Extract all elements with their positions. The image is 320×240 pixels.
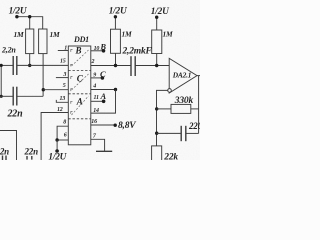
svg-text:B: B	[75, 46, 82, 56]
svg-text:10: 10	[94, 46, 100, 52]
wire: top-left 1/2U rail	[17, 17, 43, 29]
junction: feedback 220 cap	[155, 132, 158, 135]
svg-text:2,2mkF: 2,2mkF	[122, 47, 153, 57]
wire: down to 1/2U terminal	[56, 140, 58, 151]
wire: 220 cap right lead	[186, 132, 199, 134]
wire: right 1M bottom lead	[156, 54, 158, 66]
svg-text:B: B	[99, 41, 106, 51]
capacitor C 2,2n (row1)	[12, 56, 14, 75]
wire: op-amp output	[197, 75, 200, 77]
IC section separator C/A	[68, 93, 91, 95]
IC input hooks section B	[71, 50, 73, 52]
op-amp DA2.1 triangle	[169, 58, 197, 93]
resistor R 1M (middle)	[111, 29, 121, 53]
wire: pin4 to junction	[91, 89, 116, 91]
wire: 330k left lead	[157, 108, 172, 110]
capacitor C (bottom-left, cut)	[2, 156, 4, 161]
wire: pin1 stub	[58, 50, 69, 52]
wire: pin13 stub	[56, 100, 68, 102]
wire: pin10 to node B	[91, 50, 104, 52]
wire: row1 input to cap	[0, 64, 13, 66]
wire: left 1M top lead	[29, 17, 31, 29]
wire: input left edge vertical	[0, 65, 2, 96]
resistor R 330k	[171, 104, 191, 113]
svg-text:330k: 330k	[174, 96, 194, 106]
junction: left 1M to row1	[28, 64, 31, 67]
svg-text:1: 1	[64, 45, 67, 51]
wire: pin12 to bottom ladder	[41, 113, 68, 161]
svg-text:5: 5	[63, 83, 66, 89]
svg-text:1M: 1M	[163, 30, 174, 39]
svg-text:DD1: DD1	[73, 35, 89, 44]
node: 1/2U terminal middle	[114, 15, 117, 18]
junction: right 1M / pin5 wire	[42, 88, 45, 91]
wire: pin11 to node A	[91, 100, 104, 102]
node: 8,8V test point	[114, 124, 117, 127]
node: 1/2U terminal bottom	[55, 149, 59, 153]
wire: 220 cap left lead	[157, 132, 182, 134]
capacitor C 22n (bottom, cut)	[26, 156, 28, 160]
svg-text:16: 16	[91, 119, 97, 125]
node C dot	[101, 76, 105, 80]
IC section A diagonal	[72, 96, 89, 115]
svg-text:11: 11	[94, 95, 99, 101]
wire: row2 input to cap	[0, 95, 13, 97]
wire: pin8 to 1/2U	[57, 126, 68, 140]
svg-text:22n: 22n	[7, 109, 24, 120]
resistor R 22k (bottom, cut)	[152, 146, 162, 161]
resistor R 1M (top-left, left)	[26, 29, 34, 54]
svg-text:1/2U: 1/2U	[151, 7, 170, 17]
wire: output right-edge vertical	[198, 76, 200, 134]
svg-text:8,8V: 8,8V	[118, 121, 136, 131]
IC section separator A/power	[68, 118, 91, 120]
resistor R 1M (right)	[152, 30, 162, 54]
wire: pin14 up to pin4 junction	[91, 90, 116, 114]
wire: right 1/2U lead	[156, 17, 158, 30]
junction: input row2	[0, 95, 3, 98]
wire: left 1M bottom lead	[29, 54, 31, 66]
wire: inverting input to feedback node	[157, 90, 169, 145]
junction: right 1M / main wire	[155, 64, 158, 67]
wire: row2 cap to right 1M lead	[17, 95, 43, 97]
svg-text:9: 9	[93, 72, 96, 78]
junction: input row1	[0, 64, 3, 67]
IC section C diagonal	[72, 74, 89, 90]
node: 1/2U terminal top-left	[15, 15, 18, 18]
op-amp inverting input circle	[168, 89, 172, 93]
wire: lower input row y130	[0, 131, 17, 161]
svg-text:3: 3	[62, 72, 66, 78]
junction: middle 1M / main wire	[114, 64, 117, 67]
wire: pin16 to 8,8V point	[91, 124, 115, 126]
svg-text:22k: 22k	[163, 152, 178, 160]
svg-text:1/2U: 1/2U	[48, 153, 67, 160]
svg-text:A: A	[76, 96, 83, 106]
svg-text:DA2.1: DA2.1	[172, 70, 192, 79]
svg-text:2: 2	[91, 59, 95, 65]
wire: right 1M bottom lead down to pin5 row	[42, 54, 44, 97]
svg-text:15: 15	[60, 58, 66, 64]
junction: pin4	[114, 88, 117, 91]
svg-text:1/2U: 1/2U	[109, 7, 128, 17]
node: 1/2U terminal right	[155, 16, 158, 19]
svg-text:1M: 1M	[14, 30, 25, 39]
svg-text:1/2U: 1/2U	[9, 7, 28, 17]
svg-text:2,2n: 2,2n	[1, 45, 16, 54]
wire: row1 cap to IC pin15	[17, 64, 69, 66]
capacitor C 220	[180, 126, 182, 141]
svg-text:A: A	[100, 91, 107, 101]
capacitor C 2,2mkF	[130, 56, 132, 76]
junction: feedback 330k	[155, 107, 158, 110]
IC input hooks section C	[71, 77, 73, 79]
svg-text:14: 14	[93, 108, 99, 114]
svg-text:C: C	[100, 69, 106, 79]
wire: cap to op-amp input	[135, 65, 169, 67]
svg-text:4: 4	[92, 84, 96, 90]
IC section B diagonal	[72, 50, 89, 66]
wire: pin7 to ground	[91, 139, 105, 151]
IC input hooks section A	[71, 101, 73, 103]
ground bar	[96, 150, 112, 152]
svg-text:6: 6	[64, 133, 67, 139]
node A dot	[102, 100, 106, 104]
svg-text:13: 13	[60, 96, 66, 102]
junction: pin8/pin6	[55, 138, 58, 141]
wire: middle 1M bottom lead	[115, 53, 117, 65]
svg-text:12: 12	[57, 107, 63, 113]
svg-text:2,2n: 2,2n	[0, 146, 9, 156]
wire: middle 1/2U lead	[114, 17, 116, 29]
svg-text:22n: 22n	[24, 146, 39, 156]
resistor R 1M (top-left, right)	[39, 29, 47, 54]
capacitor C 22n (row2)	[12, 87, 14, 106]
wire: pin3 stub	[56, 77, 68, 79]
wire: 330k right lead	[191, 108, 199, 110]
svg-text:1M: 1M	[122, 30, 133, 39]
IC DD1 body	[68, 46, 91, 145]
svg-text:8: 8	[63, 119, 66, 125]
wire: pin6 to 1/2U	[57, 139, 68, 141]
IC section separator B/C	[68, 70, 91, 72]
svg-text:1M: 1M	[50, 30, 61, 39]
node B dot	[102, 49, 106, 53]
svg-text:220: 220	[188, 121, 200, 131]
junction: left 1M tap	[28, 15, 31, 18]
wire: pin5 row	[43, 89, 68, 91]
wire: pin9 to node C	[91, 77, 103, 79]
wire: pin2 main wire to cap	[91, 65, 131, 67]
